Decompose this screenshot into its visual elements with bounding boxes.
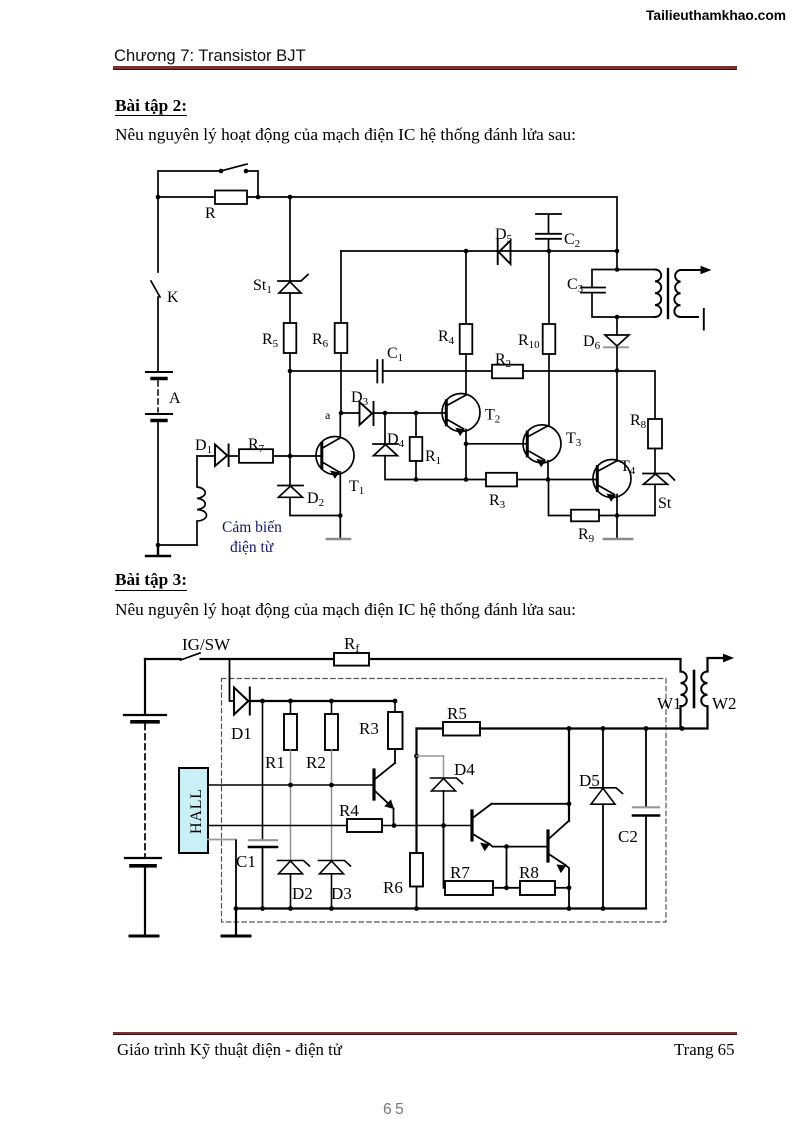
zener D5	[590, 788, 623, 804]
battery A cell2 long plate	[146, 413, 172, 415]
svg-text:W1: W1	[657, 694, 682, 713]
node rail at 290	[288, 195, 293, 200]
node R5 bottom	[288, 369, 293, 374]
svg-text:a: a	[325, 408, 331, 422]
dashed IC boundary box	[222, 679, 667, 923]
wire C2 to ground rail corner	[645, 816, 647, 909]
svg-text:R9: R9	[578, 526, 595, 545]
wire battery to ground	[144, 867, 146, 935]
svg-text:R1: R1	[265, 753, 285, 772]
arrow output	[723, 654, 734, 663]
wire R6 top riser	[340, 251, 342, 323]
wire Q2 emitter to Q3 base	[489, 844, 548, 847]
capacitor C2 top bar	[536, 214, 561, 234]
node battery bottom	[156, 543, 161, 548]
D4 branch horizontal	[417, 755, 444, 757]
node rail Q3	[567, 906, 572, 911]
wire Q3 emitter down	[566, 865, 570, 909]
wire R2 node to D3	[331, 785, 333, 860]
node T2 emitter mid	[464, 442, 469, 447]
D4 lead	[443, 756, 445, 778]
zener St	[643, 474, 675, 485]
watermark Tailieuthamkhao.com	[646, 8, 791, 23]
capacitor C2 plates	[536, 234, 561, 239]
svg-text:St1: St1	[253, 277, 272, 296]
svg-text:T1: T1	[349, 478, 364, 497]
node 617/251	[615, 249, 620, 254]
HALL bottom lead	[208, 839, 236, 841]
wire K to battery	[157, 297, 159, 372]
transformer W1 winding	[681, 672, 687, 707]
transistor T2	[442, 394, 480, 437]
svg-text:D3: D3	[351, 389, 369, 408]
transistor T1	[316, 437, 354, 479]
svg-text:điện từ: điện từ	[230, 539, 274, 556]
node bypass right	[244, 169, 249, 174]
resistor R4	[347, 819, 382, 832]
node rail left	[156, 195, 161, 200]
footer rule	[113, 1032, 737, 1035]
resistor R6	[335, 323, 348, 353]
spark gap electrode	[703, 309, 705, 330]
svg-text:C2: C2	[618, 827, 638, 846]
svg-text:IG/SW: IG/SW	[182, 635, 231, 654]
svg-text:D6: D6	[583, 333, 601, 352]
transistor T3	[523, 425, 561, 467]
zener D2	[278, 861, 310, 874]
resistor R7	[239, 449, 273, 463]
resistor R2	[492, 365, 523, 379]
node rail R6	[414, 906, 419, 911]
wire battery to bottom node	[157, 421, 159, 545]
resistor R1	[410, 437, 423, 461]
node D4 bottom	[441, 823, 446, 828]
wire R4 to T2	[465, 354, 467, 395]
wire node to T4 collector	[616, 371, 618, 462]
svg-text:C2: C2	[564, 231, 580, 250]
battery cell1 short plate	[132, 720, 158, 724]
svg-text:R6: R6	[312, 331, 329, 350]
resistor R7	[445, 881, 493, 895]
line y251 D5 rail	[341, 250, 617, 252]
svg-text:C3: C3	[567, 276, 584, 295]
wire D1 drop from rail	[230, 659, 235, 701]
node R3 top	[393, 699, 398, 704]
svg-text:T2: T2	[485, 407, 500, 426]
resistor R3	[388, 712, 403, 749]
svg-text:C1: C1	[387, 345, 403, 364]
wire R4 drop to T2 collector	[465, 251, 467, 324]
node D4 branch	[414, 754, 419, 759]
zener D4	[373, 444, 398, 456]
node rail D5	[601, 906, 606, 911]
wire coil bottom to battery node	[158, 544, 197, 546]
wire T3 emitter node to R9	[549, 480, 572, 516]
transformer secondary winding	[674, 270, 680, 317]
wire W2 top to arrow	[708, 658, 726, 672]
wire T2 emitter to T3 base	[466, 443, 527, 445]
wire St1 to R5	[289, 293, 291, 323]
wire R10 to T3 collector	[548, 354, 550, 426]
wire R8 to Q3 emitter	[555, 887, 569, 889]
wire St to R9 line	[617, 484, 655, 515]
ground under HALL lead	[235, 909, 237, 936]
zener D3	[319, 861, 351, 874]
zener D2	[278, 486, 303, 498]
svg-text:R3: R3	[489, 492, 506, 511]
wire R6 bottom to node a	[340, 353, 342, 413]
secondary bottom wire	[681, 316, 699, 318]
svg-text:R5: R5	[262, 331, 279, 350]
wire T3 emitter down	[547, 461, 549, 480]
capacitor C2 bottom plate	[633, 814, 659, 817]
diode D5	[498, 240, 511, 264]
svg-text:D4: D4	[454, 760, 475, 779]
wire C2 drop	[645, 729, 647, 808]
svg-text:W2: W2	[712, 694, 737, 713]
node T2 emitter bottom	[464, 477, 469, 482]
wire box bottom to D6	[616, 317, 618, 335]
wire D3 to ground rail	[331, 874, 333, 909]
svg-text:A: A	[169, 390, 181, 407]
transformer primary winding	[655, 270, 661, 318]
svg-text:R8: R8	[519, 863, 539, 882]
resistor R8	[520, 881, 555, 895]
battery cell2 short plate	[131, 864, 155, 868]
transformer core	[693, 671, 696, 707]
wire R1 drop	[415, 413, 417, 437]
svg-text:K: K	[167, 289, 179, 306]
wire rail down to St1	[289, 197, 291, 281]
wire D6 to node	[616, 347, 618, 370]
capacitor C1 bottom plate	[249, 846, 277, 849]
resistor R5	[443, 722, 480, 736]
wire Q1 emitter to R4 line	[393, 809, 395, 826]
heading Bai tap 3	[115, 570, 187, 590]
node Q3 base line	[504, 844, 509, 849]
wire D4 node to R7 row	[444, 826, 446, 888]
node R8 right	[567, 885, 572, 890]
long line y371 middle part	[383, 370, 492, 372]
secondary top output wire	[681, 269, 703, 271]
battery A dashed middle	[157, 381, 159, 412]
footer right text	[674, 1040, 738, 1060]
HALL sensor box	[179, 768, 208, 853]
battery A cell2 short plate	[152, 419, 166, 422]
HALL mid lead	[208, 825, 347, 827]
svg-text:D3: D3	[331, 884, 352, 903]
svg-text:D5: D5	[495, 226, 513, 245]
page number 65	[383, 1101, 407, 1119]
svg-text:R8: R8	[630, 412, 647, 431]
wire R7R8 node riser	[506, 847, 508, 888]
heading Bai tap 2	[115, 96, 187, 116]
node R1 base	[288, 783, 293, 788]
node Q2 collector riser	[567, 801, 572, 806]
svg-text:R2: R2	[495, 351, 511, 370]
capacitor C1	[377, 360, 382, 383]
wire R3 riser	[394, 701, 396, 712]
node T4 emitter	[615, 513, 620, 518]
wire bypass branch over R	[158, 171, 258, 197]
node 549/251	[547, 249, 552, 254]
wire main top rail	[158, 197, 617, 251]
footer left text	[117, 1040, 342, 1060]
resistor R4	[460, 324, 473, 354]
node C1 top	[260, 699, 265, 704]
paragraph 2	[115, 600, 576, 620]
wire riser to R5	[417, 727, 444, 729]
wire R1 node to D2	[290, 785, 292, 860]
wire R1 to base line	[290, 750, 292, 785]
top rail with IG/SW gap	[145, 659, 681, 672]
wire R8 to St	[654, 449, 656, 474]
wire collector riser	[568, 729, 570, 822]
node D6 line	[615, 368, 620, 373]
svg-text:R7: R7	[248, 436, 265, 455]
wire R3 to Q1 collector	[394, 749, 396, 763]
HALL top lead / Q1 base line	[208, 784, 374, 786]
svg-text:T4: T4	[620, 458, 636, 477]
zener St1	[278, 275, 308, 294]
svg-text:R4: R4	[438, 328, 455, 347]
wire T4 emitter down	[616, 495, 618, 516]
capacitor C1 top plate	[249, 839, 277, 841]
wire R7 to T1 base	[273, 455, 321, 457]
wire R9 to T4 emitter node	[599, 515, 617, 517]
node box bottom	[615, 315, 620, 320]
diode D6	[605, 335, 629, 346]
diode D3	[360, 402, 374, 425]
wire D2 to ground rail	[290, 874, 292, 909]
wire T1 collector to node a	[339, 413, 341, 438]
svg-text:D4: D4	[387, 431, 405, 450]
wire D2 to emitter line	[290, 497, 340, 515]
arrow high voltage output	[701, 266, 712, 275]
wire node a to D3	[341, 412, 359, 414]
wire R2 riser	[331, 701, 333, 714]
wire R7 to R8	[493, 887, 520, 889]
resistor Rf	[334, 653, 369, 666]
node R1 bottom	[414, 477, 419, 482]
wire W2 bottom	[682, 706, 708, 728]
resistor R6	[410, 853, 423, 887]
ground under T1	[339, 516, 341, 539]
wire HALL lead to ground rail	[235, 841, 237, 909]
svg-text:D1: D1	[231, 724, 252, 743]
switch IG/SW blade	[181, 653, 201, 660]
battery cell1 long plate	[124, 714, 166, 716]
wire battery drop	[144, 659, 146, 714]
node a	[339, 411, 344, 416]
node rail left	[234, 906, 239, 911]
node bypass left	[219, 169, 224, 174]
wire D4 drop	[384, 413, 386, 444]
wire D4 to mid line	[443, 791, 445, 826]
capacitor C2 top plate	[633, 806, 659, 808]
wire base node down to D2	[289, 456, 291, 485]
svg-text:D5: D5	[579, 771, 600, 790]
R5 output line	[480, 727, 682, 729]
diode D1	[215, 445, 229, 467]
transistor T4	[593, 460, 631, 502]
transistor Q1	[374, 763, 395, 809]
node C2 top	[644, 726, 649, 731]
wire W1 bottom	[679, 706, 681, 728]
ground rail	[236, 907, 646, 909]
svg-text:C1: C1	[236, 852, 256, 871]
wire 617 down to coil box	[616, 251, 618, 269]
wire R2 to base line	[331, 750, 333, 785]
node 466/251	[464, 249, 469, 254]
battery dashed middle	[144, 724, 146, 857]
node R7 R8 junction	[504, 885, 509, 890]
wire C1 to ground rail	[262, 847, 264, 909]
svg-text:R2: R2	[306, 753, 326, 772]
resistor R9	[571, 510, 599, 522]
transformer W2 winding	[701, 672, 707, 707]
wire C1 vertical	[262, 701, 264, 840]
resistor R1	[284, 714, 297, 750]
ground under T4	[616, 516, 618, 539]
node R2 base	[329, 783, 334, 788]
wire D5 to ground rail	[602, 804, 604, 908]
wire node371 down to base node	[289, 371, 291, 456]
node box top	[615, 267, 620, 272]
wire T2 emitter chain	[465, 430, 467, 480]
svg-text:R: R	[205, 205, 216, 222]
resistor R2	[325, 714, 338, 750]
node Q1 emitter	[392, 823, 397, 828]
ground bar	[222, 935, 250, 938]
svg-text:R1: R1	[425, 448, 441, 467]
node collector riser	[567, 726, 572, 731]
node T3 emitter bottom	[546, 477, 551, 482]
wire left down to switch K	[157, 197, 159, 272]
svg-text:T3: T3	[566, 430, 582, 449]
svg-text:D2: D2	[307, 490, 324, 509]
svg-text:D2: D2	[292, 884, 313, 903]
long line y371 left part	[290, 370, 377, 372]
svg-text:Cảm biến: Cảm biến	[222, 519, 282, 536]
resistor R	[215, 191, 247, 205]
svg-text:R5: R5	[447, 704, 467, 723]
R5 left riser	[415, 729, 417, 854]
node D4 top	[383, 411, 388, 416]
wire D1 output rail	[250, 700, 394, 702]
resistor R5	[284, 323, 297, 353]
node rail D2	[288, 906, 293, 911]
node R1 top	[288, 699, 293, 704]
node R1 top	[414, 411, 419, 416]
node T1 emitter	[338, 513, 343, 518]
battery cell2 long plate	[125, 857, 161, 859]
node D5 top	[601, 726, 606, 731]
line R3 row	[416, 479, 597, 481]
wire D4 to bottom line	[385, 456, 416, 480]
svg-text:R7: R7	[450, 863, 470, 882]
switch K blade	[151, 281, 160, 297]
resistor R10	[543, 324, 556, 354]
node W1 bottom	[680, 726, 685, 731]
header chapter title	[114, 46, 306, 66]
ground under battery	[146, 545, 170, 556]
svg-text:HALL: HALL	[188, 788, 205, 834]
diode D1	[234, 688, 250, 715]
svg-text:D1: D1	[195, 437, 212, 456]
svg-text:R4: R4	[339, 801, 359, 820]
node R2 top	[329, 699, 334, 704]
svg-text:R10: R10	[518, 332, 540, 351]
transistor Q3	[548, 821, 569, 873]
transistor Q2	[472, 804, 492, 851]
wire Q2 collector line	[492, 803, 570, 805]
wire T1 emitter down	[339, 472, 341, 516]
svg-text:R3: R3	[359, 719, 379, 738]
wire R6 to ground rail	[416, 887, 418, 909]
zener D4	[431, 778, 463, 791]
wire D5 drop	[602, 729, 604, 788]
header rule	[113, 66, 737, 69]
capacitor C3	[581, 288, 605, 293]
ground under battery	[130, 935, 158, 938]
wire coil to D1	[197, 455, 214, 457]
wire R1 riser	[290, 701, 292, 714]
svg-text:St: St	[658, 495, 672, 512]
paragraph 1	[115, 125, 576, 145]
resistor R3	[486, 473, 517, 487]
node base T1 junction	[288, 454, 293, 459]
wire R4 to Q2 base	[382, 825, 472, 827]
pickup coil (cam bien dien tu)	[197, 456, 207, 545]
transformer core	[667, 269, 669, 318]
svg-text:R6: R6	[383, 878, 403, 897]
switch blade over R	[221, 164, 247, 171]
wire R5 to node 371	[289, 353, 291, 371]
battery A cell1 long plate	[146, 371, 172, 373]
svg-text:Rf: Rf	[344, 634, 359, 655]
long line y371 right part to R8	[523, 371, 655, 419]
ignition coil box top/left	[592, 270, 655, 318]
wire C2 to rail	[548, 239, 550, 251]
wire R10 drop	[548, 251, 550, 324]
wire D3 to T2 base	[374, 412, 447, 414]
battery A cell1 short plate	[152, 377, 166, 380]
node rail C1	[260, 906, 265, 911]
wire D1 to R7	[229, 455, 239, 457]
wire R1 to bottom line	[415, 461, 417, 480]
node rail D3	[329, 906, 334, 911]
node rail at 258	[256, 195, 261, 200]
diode D6 cathode bar	[604, 346, 628, 348]
resistor R8	[648, 419, 662, 449]
